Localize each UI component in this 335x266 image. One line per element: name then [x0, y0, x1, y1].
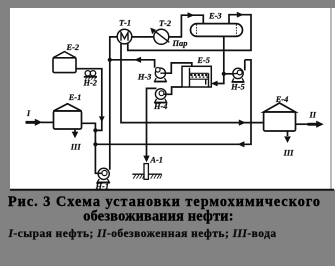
- svg-text:Е-4: Е-4: [275, 95, 289, 104]
- svg-text:I-сырая нефть; II-обезвоженная: I-сырая нефть; II-обезвоженная нефть; II…: [7, 228, 276, 240]
- svg-text:обезвоживания нефти:: обезвоживания нефти:: [83, 209, 233, 225]
- svg-text:Н-5: Н-5: [230, 82, 245, 91]
- svg-text:Н-2: Н-2: [82, 78, 97, 87]
- svg-text:Н-3: Н-3: [137, 72, 152, 81]
- svg-text:III: III: [283, 148, 295, 157]
- svg-text:I: I: [26, 109, 31, 118]
- svg-text:Е-1: Е-1: [68, 93, 82, 102]
- svg-text:Н-1: Н-1: [95, 182, 110, 191]
- svg-text:А-1: А-1: [149, 155, 163, 164]
- svg-text:Пар: Пар: [172, 39, 188, 48]
- svg-text:II: II: [309, 111, 317, 120]
- svg-text:Е-5: Е-5: [196, 56, 210, 65]
- svg-text:Рис. 3 Схема установки термохи: Рис. 3 Схема установки термохимического: [8, 194, 321, 210]
- svg-text:Е-2: Е-2: [66, 43, 80, 52]
- svg-text:Е-3: Е-3: [208, 12, 222, 21]
- svg-text:Т-2: Т-2: [159, 19, 171, 28]
- svg-text:III: III: [70, 143, 82, 152]
- svg-text:Т-1: Т-1: [119, 19, 131, 28]
- svg-text:Н-4: Н-4: [153, 102, 168, 111]
